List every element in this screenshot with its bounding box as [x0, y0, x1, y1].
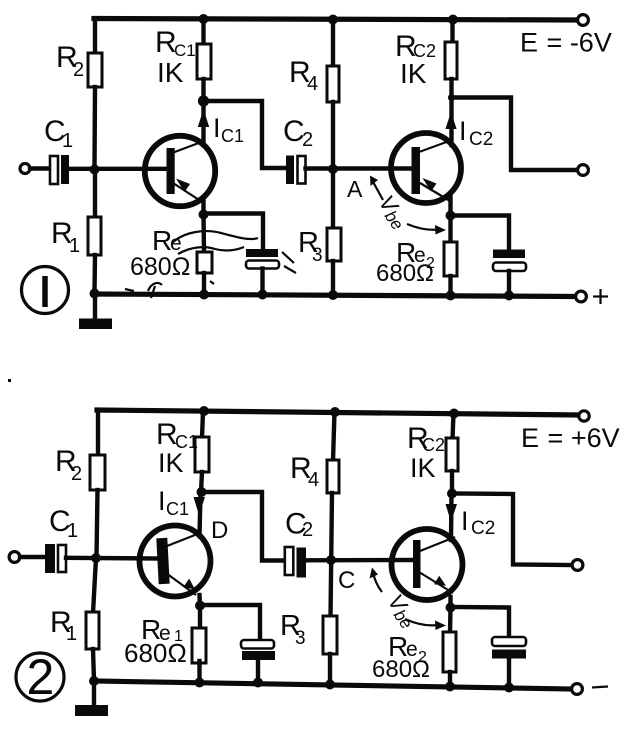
input terminal circuit 1	[20, 164, 30, 174]
svg-text:I: I	[461, 506, 469, 536]
svg-text:C2: C2	[469, 129, 493, 150]
resistor R3	[327, 228, 341, 261]
top supply rail circuit 1	[94, 19, 577, 21]
resistor Re2 680 ohm (circuit 2)	[443, 608, 456, 692]
svg-text:E = +6V: E = +6V	[521, 423, 620, 453]
marker circled 1	[22, 267, 69, 314]
label R3	[298, 227, 323, 266]
label R2 (circuit 2)	[55, 445, 82, 485]
label E = +6V	[521, 423, 620, 453]
transistor Q1 (PNP)	[145, 136, 215, 206]
bypass capacitor (emitter 1)	[246, 249, 279, 269]
junction rail-left	[90, 289, 100, 299]
svg-text:I: I	[459, 116, 467, 146]
svg-text:680Ω: 680Ω	[372, 656, 430, 683]
wire rail to RC1 (circuit 2)	[202, 411, 203, 438]
label + polarity	[593, 289, 608, 304]
junction R4 top rail (circuit 2)	[330, 407, 340, 417]
wire rail to RC1	[201, 19, 205, 45]
wire bypass cap to rail	[258, 269, 268, 300]
resistor R1 (circuit 2)	[86, 612, 99, 649]
label Vbe (circuit 1)	[372, 191, 413, 234]
svg-text:C2: C2	[422, 435, 445, 455]
current arrow IC1 (up)	[198, 109, 209, 127]
wire collector bend to C2	[204, 101, 287, 168]
svg-text:2: 2	[71, 463, 82, 485]
wire C1 to base of Q1 (circuit 2)	[66, 556, 160, 561]
svg-text:680Ω: 680Ω	[130, 253, 190, 281]
label IC2 (circuit 2)	[461, 506, 495, 539]
resistor R2 (circuit 2)	[90, 455, 105, 490]
ground circuit 2	[75, 681, 108, 716]
label 680 ohm (Re2 circuit 2)	[372, 656, 430, 683]
wire node to R1 (circuit 2)	[93, 558, 96, 613]
label RC2	[395, 30, 436, 63]
junction RC1 top rail (circuit 2)	[199, 406, 209, 416]
label node A	[347, 176, 363, 202]
label C1	[44, 115, 73, 152]
resistor R3 (circuit 2)	[323, 616, 337, 654]
wire collector junction down to Q1 (circuit 2)	[200, 492, 201, 536]
svg-text:IK: IK	[157, 57, 184, 88]
emitter junction Q1	[199, 197, 209, 220]
svg-text:I: I	[158, 486, 166, 516]
wire bypass cap to rail (circuit 2 right)	[504, 658, 514, 693]
resistor RC2 1K (circuit 2)	[446, 438, 458, 471]
label - polarity	[592, 687, 608, 688]
svg-text:1: 1	[67, 520, 78, 542]
bottom terminal circuit 1	[576, 291, 587, 302]
wire R3 to bottom rail	[331, 261, 335, 295]
wire R2 bottom to input node	[92, 87, 97, 169]
svg-text:3: 3	[295, 628, 306, 649]
svg-text:e: e	[170, 232, 182, 255]
Vbe arrow to emitter	[407, 224, 446, 235]
resistor Re1 680 ohm (circuit 2)	[192, 606, 206, 688]
label E = -6V	[520, 28, 612, 58]
label Re2 (circuit 2)	[388, 631, 427, 666]
junction R3 bottom rail (circuit 2)	[325, 680, 335, 690]
label RC1 (circuit 2)	[156, 418, 198, 452]
junction R3 bottom rail	[328, 290, 338, 300]
label C2	[283, 115, 313, 151]
resistor R1	[88, 217, 101, 255]
junction rail-left (circuit 2)	[89, 676, 99, 686]
node input junction	[90, 165, 100, 175]
emitter wire Q2 (circuit 2)	[446, 597, 456, 613]
output terminal circuit 1	[578, 165, 589, 176]
wire rail to R4 (circuit 2)	[333, 412, 335, 461]
scribble flourishes	[125, 231, 296, 298]
capacitor C1	[50, 155, 69, 184]
label IC1	[213, 113, 244, 146]
wire bypass cap 2 to rail	[504, 271, 514, 301]
junction RC1 top rail	[199, 14, 209, 24]
svg-text:680Ω: 680Ω	[124, 638, 187, 668]
label R4	[289, 56, 318, 95]
label R1 (circuit 2)	[50, 606, 77, 645]
Vbe arrow to base node (circuit 2)	[370, 568, 383, 593]
label R1	[51, 217, 80, 257]
junction collector node Q1	[198, 95, 209, 106]
label C1 (circuit 2)	[49, 505, 78, 542]
svg-text:C1: C1	[221, 126, 244, 146]
junction R4 top rail	[328, 15, 338, 25]
wire C2 to node A and base Q2	[306, 166, 414, 170]
node input junction (circuit 2)	[91, 553, 101, 563]
svg-text:4: 4	[307, 73, 318, 95]
svg-text:C2: C2	[471, 518, 495, 539]
svg-text:IK: IK	[400, 58, 427, 89]
wire collector bend to C2 (circuit 2)	[202, 492, 286, 561]
wire collector bend to output (circuit 2)	[452, 494, 572, 566]
svg-text:1: 1	[62, 130, 73, 152]
supply terminal circuit 2	[579, 411, 589, 421]
wire R3 to bottom rail (circuit 2)	[328, 654, 332, 685]
transistor Q1 (circuit 2, NPN)	[140, 526, 211, 597]
wire RC1 to collector junction (circuit 2)	[197, 472, 207, 497]
wire rail to R4	[331, 20, 335, 68]
label 1K	[157, 57, 184, 88]
label 680 ohm (Re2)	[376, 260, 434, 287]
label C2 (circuit 2)	[285, 508, 313, 542]
label Re1 (circuit 2)	[141, 614, 183, 645]
wire R2 bottom to input node (circuit 2)	[97, 490, 98, 558]
resistor RC1 1K (circuit 2)	[195, 437, 209, 472]
svg-text:4: 4	[308, 469, 319, 491]
wire node to R1	[93, 169, 97, 218]
resistor Re1 680 ohm (sketchy)	[197, 215, 212, 300]
svg-text:I: I	[213, 113, 221, 143]
svg-text:2: 2	[27, 649, 55, 705]
wire RC1 to collector junction	[201, 79, 205, 145]
bottom rail circuit 2	[94, 681, 571, 689]
label node D	[211, 517, 228, 544]
capacitor C2	[286, 156, 306, 185]
label 680 ohm	[130, 253, 190, 281]
wire collector to output bend	[452, 98, 578, 171]
wire R1 to bottom rail (circuit 2)	[93, 649, 94, 681]
bottom rail circuit 1	[94, 294, 575, 297]
wire rail to RC2 (circuit 2)	[453, 414, 454, 440]
capacitor C2 (circuit 2)	[285, 547, 306, 578]
wire emitter to bypass cap (circuit 2 right)	[451, 607, 510, 638]
wire rail to RC2	[450, 20, 454, 44]
wire R2 top to rail	[93, 19, 97, 55]
svg-text:1: 1	[66, 623, 77, 645]
svg-text:1: 1	[69, 235, 80, 257]
bypass capacitor (emitter 2)	[493, 250, 526, 272]
svg-text:2: 2	[302, 519, 313, 541]
label RC2 (circuit 2)	[407, 422, 445, 455]
marker circled 2	[16, 649, 64, 705]
wire R2 top to rail (circuit 2)	[96, 410, 100, 456]
svg-text:IK: IK	[410, 453, 436, 483]
wire R4 to node C to R3 (circuit 2)	[331, 493, 333, 617]
emitter wire Q2	[446, 195, 456, 221]
label 1K (RC2 circuit 2)	[410, 453, 436, 483]
wire RC2 to collector junction (circuit 2)	[447, 471, 457, 499]
label R2	[56, 41, 84, 81]
junction RC2 top rail	[448, 15, 458, 25]
resistor R4 (circuit 2)	[327, 460, 339, 493]
wire input terminal to C1	[30, 166, 49, 170]
label 680 ohm (Re1 circuit 2)	[124, 638, 187, 668]
svg-text:C1: C1	[166, 499, 189, 519]
bypass capacitor (emitter 1, circuit 2)	[241, 640, 275, 660]
Vbe arrow to base node	[370, 176, 383, 201]
resistor R4	[327, 66, 339, 102]
label node C	[338, 567, 355, 594]
current arrow IC2 (up)	[445, 112, 456, 129]
label R4 (circuit 2)	[290, 452, 319, 491]
capacitor C1 (circuit 2)	[45, 544, 66, 573]
svg-text:D: D	[211, 517, 228, 544]
wire emitter to bypass cap 1	[204, 214, 264, 251]
label Re2	[396, 237, 435, 272]
emitter junction Q1 (circuit 2)	[195, 595, 205, 611]
node C junction	[326, 555, 336, 565]
wire emitter to bypass cap (circuit 2 left)	[200, 605, 260, 641]
svg-text:E = -6V: E = -6V	[520, 28, 612, 58]
wire RC2 to collector junction Q2	[448, 79, 455, 145]
resistor Re2 680 ohm	[444, 216, 457, 301]
label R3 (circuit 2)	[280, 610, 306, 649]
label 1K (RC1 circuit 2)	[158, 448, 184, 478]
bypass capacitor (emitter 2, circuit 2)	[492, 637, 526, 659]
svg-text:680Ω: 680Ω	[376, 260, 434, 287]
transistor Q2 (PNP)	[391, 133, 461, 203]
svg-text:A: A	[347, 176, 363, 202]
label IC1 (circuit 2)	[158, 486, 189, 519]
supply terminal circuit 1	[578, 15, 589, 26]
wire R4 to node A to R3	[331, 102, 335, 229]
transistor Q2 (circuit 2, NPN)	[392, 529, 463, 600]
wire C2 to node C and base Q2 (circuit 2)	[305, 558, 413, 563]
wire bypass cap to rail (circuit 2 left)	[253, 660, 263, 688]
svg-text:2: 2	[73, 59, 84, 81]
resistor RC2 1K	[445, 42, 457, 79]
wire input terminal to C1 (circuit 2)	[20, 555, 45, 559]
ground circuit 1	[79, 293, 112, 329]
svg-text:3: 3	[312, 245, 323, 266]
wire collector junction down to Q2 (circuit 2)	[449, 494, 454, 541]
node A junction	[328, 164, 338, 174]
resistor R2	[88, 53, 102, 87]
label RC1	[155, 26, 196, 60]
stray speck	[8, 379, 11, 382]
svg-text:2: 2	[302, 129, 313, 151]
label Re1	[152, 225, 182, 256]
label IC2	[459, 116, 493, 150]
top supply rail circuit 2	[97, 410, 578, 415]
label Vbe (circuit 2)	[381, 590, 422, 633]
wire C1 to base of Q1	[69, 167, 168, 171]
Vbe arrow to emitter (circuit 2)	[405, 619, 446, 630]
junction RC2 top rail (circuit 2)	[449, 409, 459, 419]
svg-text:C: C	[338, 567, 355, 594]
wire emitter to bypass cap 2	[451, 216, 510, 252]
current arrow IC2 (down, circuit 2)	[446, 504, 458, 522]
wire R1 to bottom rail	[92, 255, 97, 293]
resistor RC1 1K	[197, 44, 211, 79]
current arrow IC1 (down, circuit 2)	[194, 497, 206, 515]
input terminal circuit 2	[9, 552, 20, 563]
svg-text:IK: IK	[158, 448, 184, 478]
label 1K (RC2)	[400, 58, 427, 89]
output terminal circuit 2	[572, 560, 583, 571]
bottom terminal circuit 2	[572, 684, 583, 695]
